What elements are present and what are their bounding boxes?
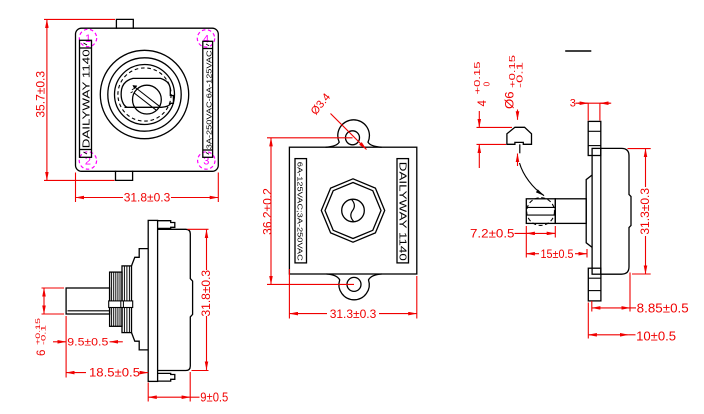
top ear hole Ø3.4: [346, 131, 360, 145]
side view plate bottom tab: [158, 373, 175, 381]
back view top ear: [326, 120, 382, 147]
dimension 36.2±0.2: [261, 138, 354, 285]
dimension 31.8±0.3 (side): [188, 229, 213, 370]
svg-text:31.8±0.3: 31.8±0.3: [199, 270, 213, 317]
svg-text:-0.1: -0.1: [40, 324, 47, 345]
dimension 31.3±0.3 (back): [289, 269, 416, 321]
datum line: [565, 50, 591, 52]
bottom ear hole: [347, 277, 361, 291]
side view shaft: [66, 288, 110, 314]
side view mounting plate: [148, 220, 157, 381]
svg-text:Ø6: Ø6: [504, 92, 516, 110]
back view shaft end circle: [342, 199, 365, 222]
svg-text:3: 3: [570, 97, 576, 109]
back view body outline: [289, 147, 416, 274]
dimension 4 +0.15/0: [472, 61, 512, 168]
svg-text:0: 0: [482, 82, 492, 87]
left label strip box: [80, 40, 92, 157]
corner mark bottom-left: [79, 152, 96, 169]
top view shaft tip: [526, 198, 555, 226]
side view body: [158, 229, 193, 370]
back view left strip text: [296, 162, 305, 262]
left strip text DAILYWAY 1140: [82, 49, 93, 149]
svg-text:3A-250VAC-6A-125VAC: 3A-250VAC-6A-125VAC: [205, 50, 214, 150]
top view mounting plate: [592, 148, 601, 274]
front view body outline: [76, 28, 219, 171]
svg-text:DAILYWAY 1140: DAILYWAY 1140: [397, 162, 408, 262]
strip cap marks: [84, 43, 210, 154]
top view body: [601, 148, 631, 274]
keyed bushing hole outline: [121, 78, 173, 107]
corner mark bottom-right: [198, 152, 215, 169]
svg-text:35.7±0.3: 35.7±0.3: [33, 71, 47, 118]
top view top ear edge: [588, 121, 601, 155]
dimension 9±0.5: [148, 372, 228, 405]
svg-text:4: 4: [203, 34, 209, 46]
corner mark top-left: [79, 29, 96, 46]
svg-text:DAILYWAY 1140: DAILYWAY 1140: [82, 49, 93, 149]
back view bottom ear: [327, 274, 382, 300]
svg-text:15±0.5: 15±0.5: [541, 249, 574, 261]
corner mark top-right: [197, 30, 214, 47]
shaft section detail (D-flat with slot): [507, 127, 532, 153]
svg-text:36.2±0.2: 36.2±0.2: [261, 188, 275, 235]
svg-text:31.3±0.3: 31.3±0.3: [330, 307, 377, 321]
svg-text:31.8±0.3: 31.8±0.3: [124, 191, 171, 205]
dimension 35.7±0.3: [33, 19, 115, 180]
side view neck: [132, 249, 149, 350]
dimension 18.5±0.5: [66, 366, 148, 380]
top view shaft rear: [555, 199, 586, 224]
svg-text:+0.15: +0.15: [472, 61, 482, 94]
svg-text:9.5±0.5: 9.5±0.5: [67, 337, 108, 349]
back view slot curve: [351, 200, 355, 222]
slot direction arrow: [133, 85, 138, 89]
right label strip box: [203, 41, 213, 157]
svg-text:9±0.5: 9±0.5: [200, 391, 228, 405]
svg-text:6: 6: [36, 350, 48, 356]
svg-text:-0.1: -0.1: [515, 62, 525, 88]
dimension 8.85±0.5: [592, 273, 689, 316]
side view threaded bushing: [109, 266, 133, 333]
shaft slot lines: [134, 89, 159, 110]
dimension 31.3±0.3 (top view): [628, 149, 652, 274]
leader Ø3.4: [309, 91, 367, 149]
svg-text:18.5±0.5: 18.5±0.5: [89, 366, 140, 380]
dimension Ø6 +0.15/-0.1: [504, 55, 544, 196]
dimension 31.8±0.3 (front): [76, 173, 219, 205]
back view octagon outer: [321, 179, 384, 242]
front view outer ring: [100, 50, 188, 138]
top view boss: [586, 175, 592, 247]
svg-text:10±0.5: 10±0.5: [636, 330, 676, 344]
top view bottom ear edge: [588, 268, 601, 301]
dimension 9.5±0.5: [53, 316, 123, 378]
dimension 6 +0.15/-0.1: [35, 288, 64, 356]
hidden circle (dashed): [118, 68, 171, 121]
back view right strip text: [397, 162, 408, 262]
front view bottom tab: [116, 171, 133, 181]
svg-text:6A-125VAC;3A-250VAC: 6A-125VAC;3A-250VAC: [296, 162, 305, 262]
tiny marks near slot: [131, 88, 135, 93]
front view middle ring: [108, 58, 181, 131]
back view right strip: [397, 159, 409, 263]
front view top tab: [116, 19, 133, 28]
svg-text:1: 1: [85, 33, 91, 45]
shaft circle: [133, 85, 162, 114]
svg-text:4: 4: [477, 100, 489, 107]
side view plate top tab: [158, 221, 175, 229]
svg-text:31.3±0.3: 31.3±0.3: [638, 188, 652, 235]
svg-text:7.2±0.5: 7.2±0.5: [470, 227, 515, 241]
right strip text rating: [205, 50, 214, 150]
dimension 10±0.5: [588, 303, 676, 344]
front view inner ring: [115, 65, 175, 125]
back view octagon inner: [325, 183, 381, 239]
dimension 3: [570, 97, 611, 120]
dimension 7.2±0.5: [470, 226, 555, 258]
svg-text:8.85±0.5: 8.85±0.5: [637, 301, 689, 315]
back view left strip: [295, 159, 307, 263]
dimension 15±0.5: [526, 249, 587, 261]
